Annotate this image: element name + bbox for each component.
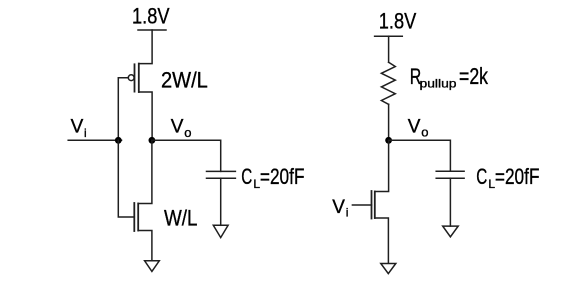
svg-text:V: V bbox=[171, 117, 184, 138]
svg-text:=20fF: =20fF bbox=[260, 164, 305, 189]
svg-text:W/L: W/L bbox=[164, 205, 198, 230]
pmos 2W/L bbox=[128, 64, 139, 92]
svg-text:o: o bbox=[421, 125, 428, 140]
value label CL=20fF (left) bbox=[241, 164, 304, 191]
svg-text:C: C bbox=[476, 164, 487, 189]
wire: Vi to NMOS gate (right) bbox=[352, 204, 371, 206]
wire: Vo node to NMOS drain (right) bbox=[375, 140, 389, 191]
wire: Vo node to capacitor CL (right) bbox=[389, 140, 451, 171]
node Vo label (right) bbox=[408, 116, 429, 139]
capacitor CL (left) bbox=[207, 171, 236, 178]
wire: PMOS gate to Vi node bbox=[118, 78, 128, 141]
wire: Vi input lead bbox=[68, 139, 121, 141]
wire: Vo node to capacitor CL (left) bbox=[152, 140, 221, 171]
wire: resistor to Vo node (right) bbox=[388, 104, 390, 140]
node Vi label (left) bbox=[71, 117, 87, 140]
svg-text:2W/L: 2W/L bbox=[161, 68, 208, 93]
wire: NMOS source to ground (left) bbox=[138, 231, 152, 261]
nmos W/L bbox=[134, 203, 138, 231]
wire: left rail to PMOS source bbox=[139, 30, 152, 64]
svg-text:1.8V: 1.8V bbox=[132, 4, 170, 29]
svg-text:V: V bbox=[71, 117, 84, 138]
value label Rpullup=2k bbox=[410, 63, 489, 91]
svg-text:C: C bbox=[241, 164, 252, 189]
junction Vo node (right) bbox=[385, 137, 392, 144]
power rail 1.8V (right) bbox=[375, 35, 403, 37]
wire: Vi node to NMOS gate bbox=[118, 140, 134, 217]
wire: PMOS drain to Vo node bbox=[139, 92, 152, 140]
junction Vi node bbox=[115, 137, 122, 144]
ground (right capacitor) bbox=[443, 226, 459, 237]
nmos M2 (right) bbox=[372, 191, 375, 219]
ground (left NMOS source) bbox=[145, 261, 160, 272]
svg-text:1.8V: 1.8V bbox=[379, 9, 417, 34]
svg-text:V: V bbox=[332, 197, 345, 218]
node Vo label (left) bbox=[171, 117, 192, 140]
svg-text:o: o bbox=[184, 125, 191, 140]
svg-text:pullup: pullup bbox=[420, 76, 457, 90]
ground (left capacitor) bbox=[213, 225, 228, 237]
svg-text:V: V bbox=[408, 116, 421, 137]
wire: Vo node to NMOS drain bbox=[138, 140, 152, 203]
power rail 1.8V (left) bbox=[138, 29, 166, 31]
wire: capacitor CL to ground (left) bbox=[220, 178, 222, 225]
ground (right NMOS source) bbox=[381, 264, 396, 274]
wire: NMOS source to ground (right) bbox=[375, 218, 389, 263]
svg-text:i: i bbox=[84, 126, 87, 140]
node Vi label (right) bbox=[332, 197, 348, 220]
junction Vo node bbox=[149, 137, 156, 144]
capacitor CL (right) bbox=[436, 171, 464, 178]
wire: right rail to resistor Rpullup bbox=[388, 36, 390, 62]
value label CL=20fF (right) bbox=[476, 164, 539, 191]
svg-text:=2k: =2k bbox=[459, 63, 488, 89]
svg-text:i: i bbox=[346, 206, 349, 220]
resistor Rpullup bbox=[381, 62, 395, 104]
wire: capacitor CL to ground (right) bbox=[449, 178, 451, 226]
svg-text:=20fF: =20fF bbox=[495, 164, 540, 189]
